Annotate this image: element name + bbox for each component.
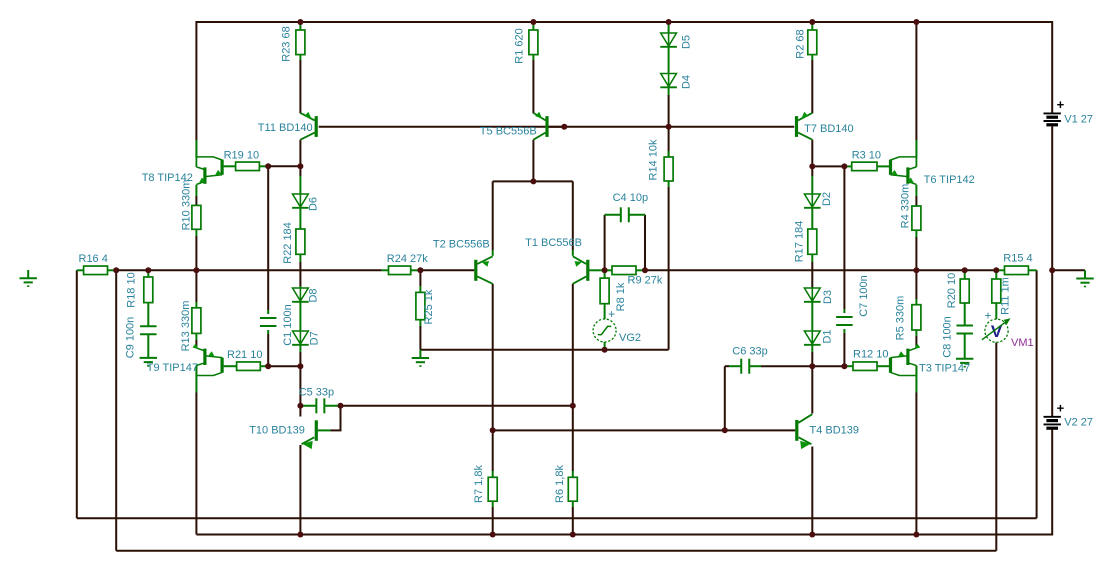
junction xyxy=(809,19,815,25)
svg-text:T6 TIP142: T6 TIP142 xyxy=(924,174,975,186)
wire R12 link xyxy=(812,365,844,367)
label T2 BC556B xyxy=(433,239,490,251)
junction xyxy=(913,267,919,273)
wire R25 top lead xyxy=(419,270,421,292)
wire R8 top lead xyxy=(604,270,606,278)
svg-text:T5 BC556B: T5 BC556B xyxy=(480,125,537,137)
svg-text:V1 27: V1 27 xyxy=(1064,114,1093,126)
svg-text:R24 27k: R24 27k xyxy=(387,253,428,265)
label T7 BD140 xyxy=(804,123,854,135)
wire R19 leads xyxy=(224,165,269,167)
label V1 27 xyxy=(1064,114,1093,126)
voltmeter VM1 xyxy=(982,316,1012,342)
transistor T2 BC556B xyxy=(476,256,493,284)
wire C6 leads xyxy=(725,365,813,367)
wire V2 top xyxy=(1051,270,1053,416)
resistor R12 10 xyxy=(853,362,877,371)
transistor T7 BD140 xyxy=(797,112,813,140)
label VG2 xyxy=(619,332,641,344)
svg-text:R16 4: R16 4 xyxy=(79,253,108,265)
wire left chain D7-node xyxy=(299,345,301,366)
resistor R18 10 xyxy=(144,277,153,303)
wire tail node horizontal xyxy=(493,180,573,182)
wire R9 leads xyxy=(605,269,645,271)
transistor T8 TIP142 xyxy=(196,140,222,185)
label C7 100n xyxy=(858,275,870,317)
wire input node drop xyxy=(115,270,117,550)
wire R3 link xyxy=(812,165,844,167)
junction xyxy=(490,427,496,433)
wire R11-VM1 lead xyxy=(995,303,997,319)
junction xyxy=(913,532,919,538)
wire D5-D4 lead xyxy=(668,47,670,74)
wire T6 emitter to R4 xyxy=(915,185,917,206)
wire R1 top lead xyxy=(532,22,534,30)
label R6 1,8k xyxy=(554,465,566,503)
svg-text:T7 BD140: T7 BD140 xyxy=(804,123,854,135)
svg-text:C1 100n: C1 100n xyxy=(282,304,294,346)
resistor R21 10 xyxy=(237,362,261,371)
wire ground net at VG2 xyxy=(420,349,668,351)
svg-text:R9 27k: R9 27k xyxy=(628,275,663,287)
label + of V1 xyxy=(1057,97,1065,112)
wire left chain D6-R22 xyxy=(299,208,301,229)
wire C5 output link xyxy=(341,405,573,407)
junction xyxy=(561,124,567,130)
wire left feedback rail xyxy=(76,270,78,518)
wire R18 top lead xyxy=(147,270,149,277)
diode D8 xyxy=(292,288,309,302)
junction xyxy=(666,124,672,130)
svg-text:T1 BC556B: T1 BC556B xyxy=(525,237,582,249)
label R10 330m xyxy=(180,180,192,231)
wire T7 emitter lead xyxy=(811,55,813,114)
svg-text:R14 10k: R14 10k xyxy=(647,139,659,180)
wire node to R13 xyxy=(195,270,197,308)
svg-text:+: + xyxy=(1057,97,1065,112)
wire C4 horizontal leads xyxy=(605,214,645,216)
label T1 BC556B xyxy=(525,237,582,249)
svg-text:T2 BC556B: T2 BC556B xyxy=(433,239,490,251)
svg-text:D4: D4 xyxy=(681,75,693,89)
svg-text:R11 1m: R11 1m xyxy=(999,277,1011,315)
wire R8-VG2 lead xyxy=(604,304,606,320)
label T9 TIP147 xyxy=(147,362,198,374)
resistor R17 184 xyxy=(808,229,817,254)
svg-text:C9 100n: C9 100n xyxy=(124,317,136,359)
label C1 100n xyxy=(282,304,294,346)
svg-text:V2 27: V2 27 xyxy=(1064,417,1093,429)
svg-text:R15 4: R15 4 xyxy=(1003,252,1032,264)
wire R14 body-bottom lead xyxy=(668,181,670,187)
junction xyxy=(265,363,271,369)
wire R25 bottom lead xyxy=(419,320,421,350)
wire node to R5 xyxy=(915,270,917,304)
wire R13 to T9 xyxy=(195,333,197,347)
label R24 27k xyxy=(387,253,428,265)
resistor R7 1,8k xyxy=(488,477,497,501)
ground R25 xyxy=(412,350,429,366)
wire R12 leads xyxy=(844,365,889,367)
svg-text:D2: D2 xyxy=(821,192,833,206)
wire R21 link xyxy=(268,365,300,367)
junction xyxy=(602,267,608,273)
label D2 xyxy=(821,192,833,206)
wire V1 branch top xyxy=(1051,21,1053,113)
resistor R13 330m xyxy=(192,308,201,334)
wire C4 left leg xyxy=(604,215,606,270)
svg-text:R8 1k: R8 1k xyxy=(615,282,627,311)
label C5 33p xyxy=(299,387,334,399)
svg-text:R1 620: R1 620 xyxy=(513,28,525,63)
svg-text:R22 184: R22 184 xyxy=(282,222,294,264)
label R23 68 xyxy=(280,26,292,61)
label D5 xyxy=(681,35,693,49)
svg-text:C7 100n: C7 100n xyxy=(858,275,870,317)
label R3 10 xyxy=(852,150,881,162)
svg-text:R5 330m: R5 330m xyxy=(895,296,907,341)
wire left chain to C5 node xyxy=(299,366,301,406)
wire R7 bottom xyxy=(492,501,494,534)
label R19 10 xyxy=(224,150,259,162)
svg-text:R3 10: R3 10 xyxy=(852,150,881,162)
label R2 68 xyxy=(794,29,806,58)
junction xyxy=(297,163,303,169)
label V2 27 xyxy=(1064,417,1093,429)
junction xyxy=(265,163,271,169)
transistor T3 TIP147 xyxy=(891,344,921,393)
wire output node horizontal left section xyxy=(116,269,382,271)
resistor R23 68 xyxy=(296,30,305,55)
svg-text:R17 184: R17 184 xyxy=(793,221,805,263)
junction xyxy=(913,19,919,25)
wire T1 base lead xyxy=(589,269,604,271)
junction xyxy=(666,19,672,25)
svg-text:C5 33p: C5 33p xyxy=(299,387,334,399)
label R20 10 xyxy=(946,273,958,308)
wire R6 top xyxy=(572,471,574,477)
wire R5 to T3 xyxy=(915,330,917,348)
label + of V2 xyxy=(1057,401,1065,416)
capacitor C8 100n xyxy=(956,326,973,334)
wire VM1 bottom drop xyxy=(995,343,997,551)
label D4 xyxy=(681,75,693,89)
label T3 TIP147 xyxy=(919,363,970,375)
wire T1 collector drop xyxy=(572,284,574,471)
wire T1 emitter riser xyxy=(572,181,574,255)
wire R16 right lead xyxy=(108,269,117,271)
capacitor C5 33p xyxy=(316,398,324,413)
junction xyxy=(297,532,303,538)
transistor T5 BC556B xyxy=(533,112,564,140)
wire C4 right leg xyxy=(644,215,646,270)
ground right xyxy=(1076,270,1093,286)
wire R7 top xyxy=(492,430,494,477)
wire bottom rail 1 (R16-R15 link) xyxy=(77,517,1037,519)
label D3 xyxy=(822,290,834,304)
transistor T1 BC556B xyxy=(573,256,588,284)
junction xyxy=(841,163,847,169)
wire T3 collector drop xyxy=(915,366,917,535)
resistor R14 10k xyxy=(664,157,673,181)
transistor T4 BD139 xyxy=(797,414,813,449)
resistor R3 10 xyxy=(852,162,877,171)
junction xyxy=(113,267,119,273)
svg-text:+: + xyxy=(984,308,991,322)
wire base bus (T11-T5-T7) xyxy=(319,126,795,128)
wire T5 collector drop xyxy=(532,140,534,182)
junction xyxy=(809,363,815,369)
label R13 330m xyxy=(180,301,192,352)
wire R21 leads xyxy=(224,365,269,367)
label R4 330m xyxy=(899,184,911,229)
wire T2 base xyxy=(420,269,474,271)
label T8 TIP142 xyxy=(142,172,193,184)
label D7 xyxy=(309,331,321,345)
wire left chain upper xyxy=(299,166,301,194)
label T5 BC556B xyxy=(480,125,537,137)
junction xyxy=(993,267,999,273)
svg-text:R23 68: R23 68 xyxy=(280,26,292,61)
label C8 100n xyxy=(941,316,953,358)
wire R19 link xyxy=(268,165,300,167)
svg-text:D8: D8 xyxy=(307,288,319,302)
label D1 xyxy=(822,329,834,343)
wire T5 emitter lead xyxy=(532,55,534,114)
label R16 4 xyxy=(79,253,108,265)
wire right chain D1-node xyxy=(811,345,813,366)
voltage generator VG2 xyxy=(593,319,616,342)
wire top +27V rail xyxy=(196,21,1052,23)
svg-text:C6 33p: C6 33p xyxy=(732,346,767,358)
wire right rail upper (T6 collector feed) xyxy=(915,21,917,158)
wire T11 emitter lead xyxy=(299,55,301,114)
label C9 100n xyxy=(124,317,136,359)
label + of VG2 xyxy=(608,307,615,321)
resistor R2 68 xyxy=(808,30,817,55)
ground input xyxy=(20,270,37,286)
svg-text:R20 10: R20 10 xyxy=(946,273,958,308)
transistor T10 BD139 xyxy=(302,420,331,449)
wire R24 leads xyxy=(382,269,421,271)
label R22 184 xyxy=(282,222,294,264)
wire R2 top lead xyxy=(811,22,813,30)
wire R20-C8 lead xyxy=(964,303,966,326)
svg-text:T4 BD139: T4 BD139 xyxy=(810,425,860,437)
wire C1 top branch xyxy=(267,166,269,314)
battery V1 27 xyxy=(1044,113,1061,124)
wire R3 leads xyxy=(844,165,889,167)
wire left rail upper (T8 collector feed) xyxy=(195,21,197,158)
junction xyxy=(193,267,199,273)
junction xyxy=(145,267,151,273)
wire T4 emitter drop xyxy=(811,447,813,535)
label R9 27k xyxy=(628,275,663,287)
wire T10 emitter drop xyxy=(299,445,301,535)
junction xyxy=(297,403,303,409)
svg-text:+: + xyxy=(1057,401,1065,416)
label R12 10 xyxy=(853,349,888,361)
junction xyxy=(602,347,608,353)
svg-text:R10 330m: R10 330m xyxy=(180,180,192,231)
wire T2 collector drop xyxy=(492,284,494,431)
capacitor C4 10p xyxy=(621,207,629,222)
resistor R10 330m xyxy=(192,205,201,229)
junction xyxy=(417,267,423,273)
label + of VM1 xyxy=(984,308,991,322)
wire T8 emitter to R10 xyxy=(195,185,197,206)
wire T11 collector lead xyxy=(299,140,301,167)
diode D6 xyxy=(292,194,309,208)
wire C9-ground lead xyxy=(147,334,149,358)
capacitor C7 100n xyxy=(836,317,853,325)
svg-text:R6 1,8k: R6 1,8k xyxy=(554,465,566,503)
resistor R6 1,8k xyxy=(568,477,577,501)
wire R10 to node xyxy=(195,229,197,270)
label R7 1,8k xyxy=(473,465,485,503)
capacitor C9 100n xyxy=(140,326,157,334)
label R5 330m xyxy=(895,296,907,341)
battery V2 27 xyxy=(1044,417,1061,428)
junction xyxy=(809,163,815,169)
wire R16 left lead xyxy=(77,269,84,271)
wire D5 top lead xyxy=(668,22,670,33)
junction xyxy=(297,19,303,25)
junction xyxy=(530,19,536,25)
capacitor C1 100n xyxy=(260,318,277,326)
junction xyxy=(1049,267,1055,273)
wire ground stub right xyxy=(1052,269,1085,271)
svg-text:R12 10: R12 10 xyxy=(853,349,888,361)
svg-text:T3 TIP147: T3 TIP147 xyxy=(919,363,970,375)
label R25 1k xyxy=(423,289,435,324)
diode D4 xyxy=(660,74,677,88)
svg-text:R19 10: R19 10 xyxy=(224,150,259,162)
resistor R4 330m xyxy=(912,206,921,230)
svg-text:R21 10: R21 10 xyxy=(227,349,262,361)
resistor R25 1k xyxy=(416,292,425,319)
svg-text:R4 330m: R4 330m xyxy=(899,184,911,229)
svg-text:D6: D6 xyxy=(307,197,319,211)
wire C7 top branch xyxy=(843,166,845,313)
svg-text:R13 330m: R13 330m xyxy=(180,301,192,352)
label R14 10k xyxy=(647,139,659,180)
resistor R5 330m xyxy=(912,305,921,330)
diode D1 xyxy=(804,331,821,345)
wire R15 leads xyxy=(996,269,1036,271)
label VM1 xyxy=(1011,337,1034,349)
svg-text:VG2: VG2 xyxy=(619,332,641,344)
resistor R19 10 xyxy=(236,162,260,171)
diode D2 xyxy=(804,194,821,208)
resistor R20 10 xyxy=(960,279,969,303)
svg-text:T10 BD139: T10 BD139 xyxy=(249,425,305,437)
wire bottom rail 2 (-27V) xyxy=(196,534,1052,536)
svg-text:VM1: VM1 xyxy=(1011,337,1034,349)
junction xyxy=(570,403,576,409)
wire R14 bottom riser xyxy=(668,187,670,350)
wire C6 riser xyxy=(724,366,726,430)
wire T7 collector lead xyxy=(811,140,813,167)
wire R11 top lead xyxy=(995,270,997,279)
label T10 BD139 xyxy=(249,425,305,437)
resistor R11 1m xyxy=(992,279,1001,303)
resistor R15 4 xyxy=(1005,266,1029,275)
wire mid output horizontal right section xyxy=(645,269,996,271)
svg-text:C4 10p: C4 10p xyxy=(613,192,648,204)
junction xyxy=(809,532,815,538)
label C4 10p xyxy=(613,192,648,204)
wire left chain D8-D7 xyxy=(299,302,301,331)
label R15 4 xyxy=(1003,252,1032,264)
label R8 1k xyxy=(615,282,627,311)
svg-text:T11 BD140: T11 BD140 xyxy=(258,122,313,134)
junction xyxy=(338,403,344,409)
wire C7 bottom branch xyxy=(843,329,845,366)
resistor R1 620 xyxy=(529,30,538,55)
resistor R24 27k xyxy=(389,266,411,275)
wire C8-ground lead xyxy=(964,334,966,359)
capacitor C6 33p xyxy=(741,359,749,374)
resistor R8 1k xyxy=(600,278,609,304)
ground C9 xyxy=(140,358,157,366)
transistor T9 TIP147 xyxy=(193,344,223,393)
wire T10 base link xyxy=(300,406,315,424)
diode D3 xyxy=(804,288,821,302)
wire bottom rail 3 (input to VM1) xyxy=(116,550,996,552)
ground C8 xyxy=(956,359,973,367)
wire right chain R17-D3 crossing xyxy=(811,254,813,288)
junction xyxy=(490,532,496,538)
transistor T11 BD140 xyxy=(300,112,316,140)
diode D5 xyxy=(660,33,677,47)
wire T4 collector riser xyxy=(811,366,813,413)
wire left chain R22-D8 crossing xyxy=(299,254,301,288)
junction xyxy=(570,532,576,538)
label R1 620 xyxy=(513,28,525,63)
resistor R9 27k xyxy=(612,266,636,275)
label R11 1m xyxy=(999,277,1011,315)
wire C5 leads xyxy=(300,405,340,407)
svg-text:D3: D3 xyxy=(822,290,834,304)
wire R4 to node xyxy=(915,230,917,270)
wire C5 corner riser xyxy=(340,406,342,431)
wire R20 top lead xyxy=(964,270,966,279)
label R17 184 xyxy=(793,221,805,263)
svg-text:D1: D1 xyxy=(822,329,834,343)
wire right chain D3-D1 xyxy=(811,302,813,331)
resistor R22 184 xyxy=(296,229,305,254)
wire right chain D2-R17 xyxy=(811,208,813,229)
label R18 10 xyxy=(125,272,137,307)
resistor R16 4 xyxy=(84,266,108,275)
svg-text:D7: D7 xyxy=(309,331,321,345)
label C6 33p xyxy=(732,346,767,358)
svg-text:R25 1k: R25 1k xyxy=(423,289,435,324)
junction xyxy=(722,427,728,433)
svg-text:R7 1,8k: R7 1,8k xyxy=(473,465,485,503)
label T6 TIP142 xyxy=(924,174,975,186)
label R21 10 xyxy=(227,349,262,361)
wire R23 top lead xyxy=(299,22,301,30)
wire VG2 bottom lead xyxy=(604,342,606,350)
wire T2C to T4 base xyxy=(493,429,796,431)
junction xyxy=(962,267,968,273)
wire R18-C9 lead xyxy=(147,303,149,327)
diode D7 xyxy=(292,331,309,345)
svg-text:T9 TIP147: T9 TIP147 xyxy=(147,362,198,374)
svg-text:D5: D5 xyxy=(681,35,693,49)
